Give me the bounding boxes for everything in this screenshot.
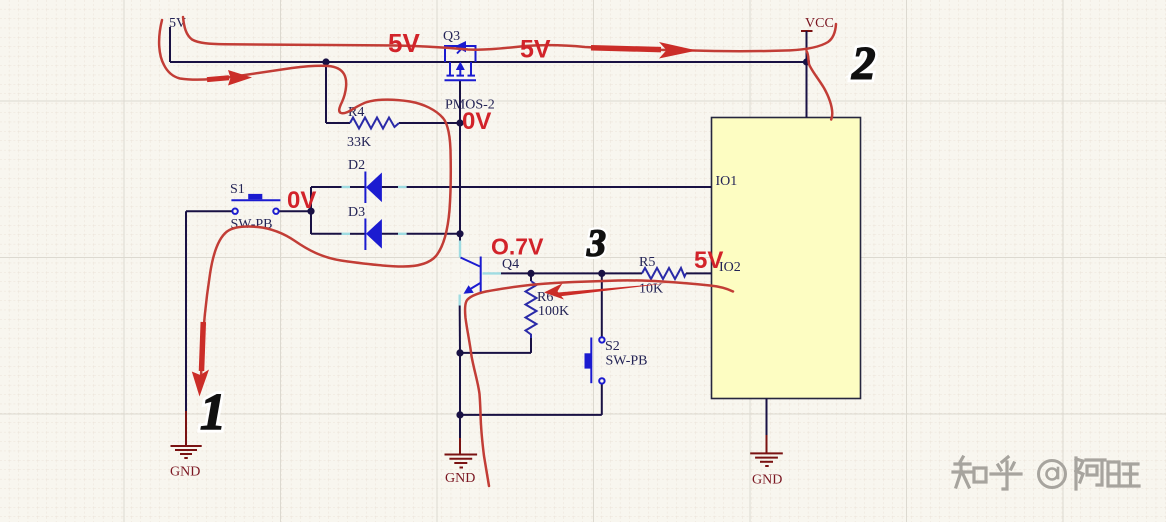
transistor Q4 NPN: [461, 257, 481, 294]
IC U1 sheet body: [712, 118, 861, 399]
svg-text:0V: 0V: [462, 108, 491, 135]
wire emitter down: [459, 306, 461, 353]
wire S1 left vertical to GND: [185, 211, 187, 412]
wire D2 anode stub: [350, 186, 365, 188]
svg-text:D3: D3: [348, 205, 365, 220]
pin D3 anode cyan: [342, 233, 351, 235]
wire base rail to IO2: [501, 272, 642, 274]
wire S1 to D2 branch vertical: [310, 187, 312, 234]
pin D2 cathode cyan: [398, 186, 407, 188]
svg-text:10K: 10K: [639, 282, 663, 297]
wire R6 top stub: [530, 273, 532, 281]
red squiggle VCC junction to IC corner: [807, 51, 833, 120]
wire S1 right: [279, 210, 311, 212]
wire top rail 5V: [170, 61, 807, 63]
pin D3 cathode cyan: [398, 233, 407, 235]
red arrow 1 down to GND: [192, 322, 209, 397]
junction node D3 / collector: [456, 230, 463, 237]
svg-text:Q3: Q3: [443, 29, 460, 44]
resistor R4: [350, 118, 399, 129]
ground GND left: [171, 411, 202, 458]
red curve from 5V via junction to R4 loop and around S1 down to GND arrow: [159, 20, 451, 388]
wire S1 left: [186, 210, 233, 212]
junction node S1 / diode branch: [307, 208, 314, 215]
transistor Q3 PMOS: [445, 41, 477, 80]
pin Q4 collector stub: [459, 234, 461, 241]
svg-text:SW-PB: SW-PB: [231, 217, 273, 232]
svg-text:0V: 0V: [287, 187, 316, 214]
junction node GND / S2: [456, 411, 463, 418]
svg-text:D2: D2: [348, 158, 365, 173]
switch S1: [231, 194, 280, 214]
diode D3: [365, 219, 382, 251]
svg-text:33K: 33K: [347, 135, 371, 150]
wire node to GND: [459, 415, 461, 438]
diode D2: [365, 172, 382, 204]
pin Q4 emitter cyan: [459, 295, 461, 306]
wire D3 left: [311, 233, 342, 235]
svg-text:S1: S1: [230, 182, 245, 197]
svg-text:5V: 5V: [520, 36, 551, 64]
wire D2 cathode stub: [382, 186, 398, 188]
wire R4 right to gate node: [399, 122, 460, 124]
red arrow small right (on left loop): [207, 70, 252, 86]
pin Q4 base cyan: [483, 272, 502, 274]
watermark zhihu @awang: [953, 457, 1139, 489]
wire D3 cathode stub: [382, 233, 398, 235]
wire node to lower node: [459, 353, 461, 415]
junction node top rail / R4: [322, 58, 329, 65]
svg-text:IO1: IO1: [716, 174, 738, 189]
svg-text:5V: 5V: [694, 247, 723, 274]
wire D3 anode stub: [350, 233, 365, 235]
red arrow 3 left (to Q4 base): [544, 283, 668, 299]
red curve 5V rail to VCC: [183, 17, 836, 51]
power port VCC: [801, 31, 813, 62]
wire gate node down to D3 node: [459, 123, 461, 234]
svg-text:GND: GND: [170, 465, 200, 480]
junction node base / S2: [598, 270, 605, 277]
svg-text:GND: GND: [752, 473, 782, 488]
red curve IO2 through R5 to Q4 base and down: [465, 280, 733, 486]
wire R4 branch vertical: [325, 62, 327, 123]
svg-text:SW-PB: SW-PB: [606, 354, 648, 369]
junction node gate / R4: [456, 119, 463, 126]
numeral 1: [200, 384, 226, 441]
svg-text:5V: 5V: [388, 28, 420, 58]
wire D2 to IO1: [407, 186, 712, 188]
wire S2 bottom to node: [460, 414, 602, 416]
svg-text:2: 2: [851, 38, 876, 90]
junction node emitter / R6: [456, 349, 463, 356]
resistor R6: [526, 281, 537, 338]
wire IC bottom pin to GND: [766, 399, 768, 437]
wire VCC to IC top pin: [806, 62, 808, 118]
wire Q3 gate pin: [459, 81, 461, 123]
switch S2: [585, 337, 605, 383]
numeral 3: [586, 223, 606, 265]
resistor R5: [642, 268, 686, 279]
numeral 2: [851, 38, 876, 90]
svg-text:VCC: VCC: [805, 16, 834, 31]
ground GND right: [750, 435, 783, 466]
pin Q4 collector cyan: [459, 241, 461, 258]
ground GND middle: [445, 438, 478, 468]
svg-text:O.7V: O.7V: [491, 234, 544, 260]
wire D3 to node: [407, 233, 460, 235]
wire R6 bottom to emitter node: [460, 352, 531, 354]
svg-text:1: 1: [200, 384, 226, 441]
svg-text:100K: 100K: [538, 304, 569, 319]
svg-text:R5: R5: [639, 255, 655, 270]
svg-text:GND: GND: [445, 471, 475, 486]
wire S2 branch vertical: [601, 273, 603, 337]
svg-text:3: 3: [586, 223, 606, 265]
wire D2 left: [311, 186, 342, 188]
junction node base / R6: [527, 270, 534, 277]
red arrow 2 right (to VCC): [591, 42, 697, 59]
wire R6 bottom stub: [530, 338, 532, 353]
junction node top rail / VCC: [803, 58, 810, 65]
wire R4 left: [326, 122, 350, 124]
wire S2 bottom vertical: [601, 384, 603, 415]
wire 5V stub: [169, 27, 171, 62]
svg-text:S2: S2: [605, 339, 620, 354]
wire R5 right to IO2: [686, 272, 712, 274]
pin D2 anode cyan: [342, 186, 351, 188]
